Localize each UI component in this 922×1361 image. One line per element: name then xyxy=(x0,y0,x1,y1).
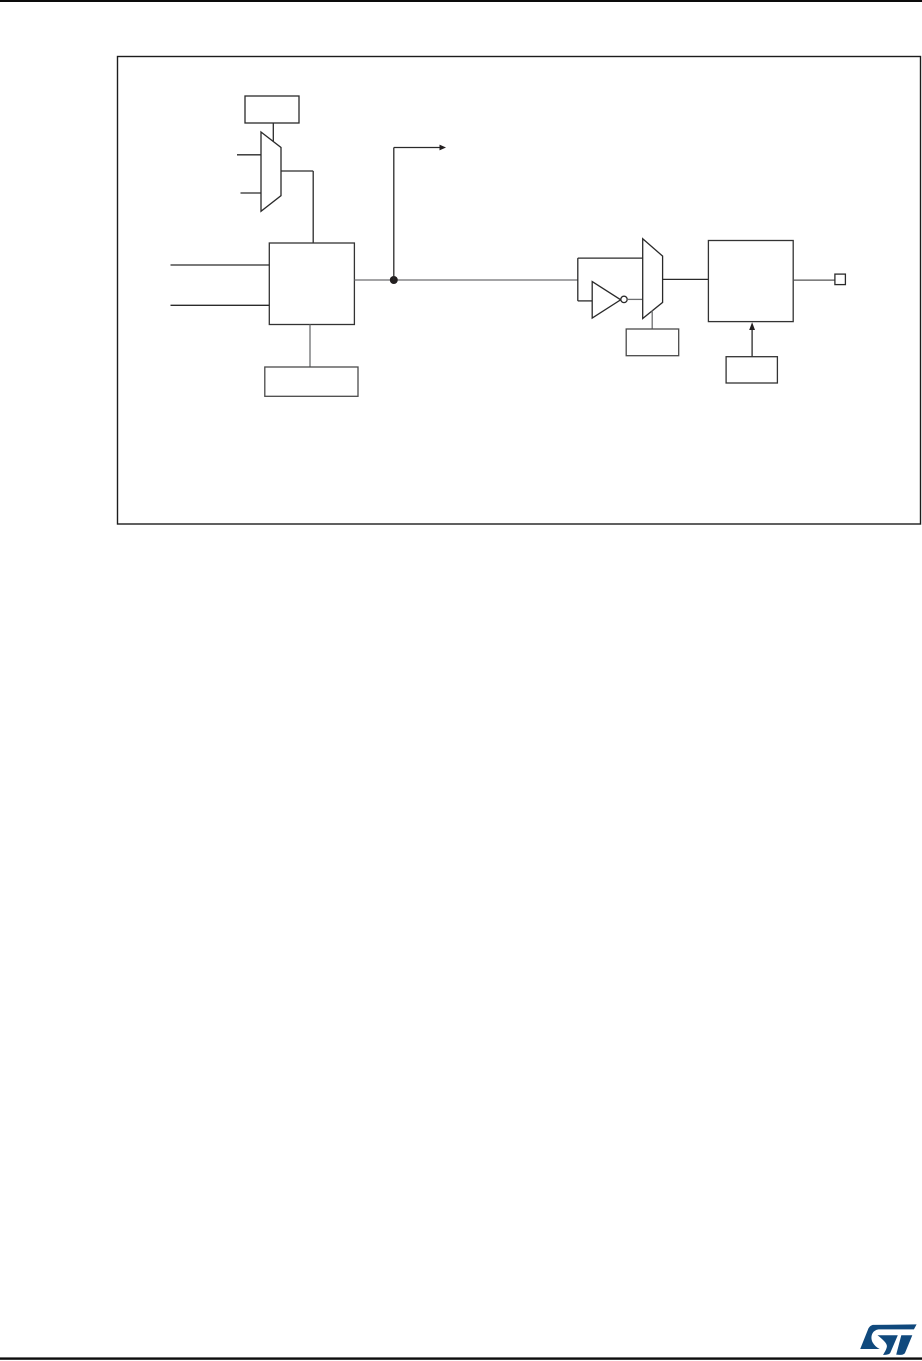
wire: branch vertical up xyxy=(393,148,395,281)
wire: lower leg to inverter input xyxy=(578,300,592,302)
wire: main horizontal net from U1 output xyxy=(354,279,577,281)
wire: block U1 input 1 xyxy=(171,264,270,266)
block U1 (timer/peripheral) xyxy=(269,243,354,325)
wire: tee vertical at inverter group xyxy=(577,258,579,301)
inverter U2 xyxy=(592,282,621,319)
wire: register box to mux M1 select xyxy=(272,123,274,142)
ST logo xyxy=(860,1324,916,1355)
wire: enable register up to block U3 xyxy=(751,328,753,357)
wire: block U3 output to pad xyxy=(793,279,835,281)
block U3 (output stage) xyxy=(708,241,793,322)
wire: bubble to mux M2 input 2 xyxy=(627,298,643,300)
figure frame xyxy=(118,57,921,525)
wire: mux M2 output to block U3 xyxy=(663,278,709,280)
wire: block U1 to control register box below xyxy=(309,325,311,368)
enable register box below U3 xyxy=(726,357,777,383)
mux M1 xyxy=(261,132,281,211)
header rule xyxy=(0,0,922,2)
wire: mux M1 output vertical down to block U1 xyxy=(312,171,314,243)
wire: mux M2 select from register box xyxy=(651,311,653,329)
pad pin square xyxy=(835,274,846,285)
inverter bubble xyxy=(621,296,627,302)
node junction dot xyxy=(390,276,398,284)
arrowhead up xyxy=(749,322,755,330)
wire: mux M1 input 1 xyxy=(237,154,261,156)
wire: branch horizontal with arrow xyxy=(394,147,441,149)
arrowhead right xyxy=(440,145,447,151)
remap select register box xyxy=(245,96,299,123)
wire: upper bypass to mux M2 input 1 xyxy=(578,257,643,259)
wire: block U1 input 2 xyxy=(171,304,270,306)
polarity register box below mux M2 xyxy=(626,329,679,356)
wire: mux M1 input 2 xyxy=(241,192,262,194)
mux M2 xyxy=(643,239,663,319)
control register box below U1 xyxy=(265,367,358,396)
footer rule xyxy=(0,1357,922,1359)
wire: mux M1 output horizontal xyxy=(281,170,313,172)
